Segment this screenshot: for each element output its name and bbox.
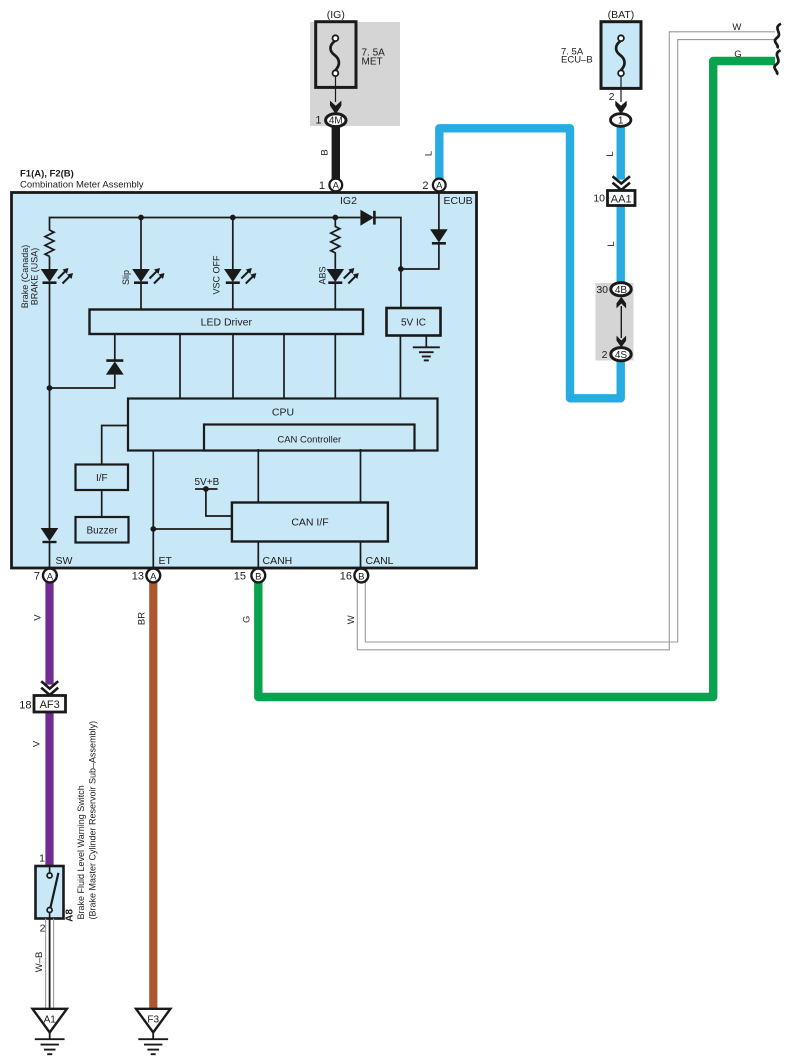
wire W (white, CANL) outer boundary bbox=[357, 32, 775, 650]
svg-text:(IG): (IG) bbox=[327, 9, 345, 21]
wire node to 5V IC bbox=[400, 269, 402, 308]
wire slip LED to LED driver bbox=[140, 284, 142, 311]
svg-text:1: 1 bbox=[618, 116, 624, 127]
pin 13 (A) ET bbox=[132, 555, 173, 583]
wire LED driver to CPU 4 bbox=[334, 334, 336, 399]
wire CAN controller to CAN I/F (CANH) bbox=[257, 449, 259, 503]
svg-text:W: W bbox=[346, 615, 357, 624]
svg-text:CANH: CANH bbox=[263, 555, 293, 567]
svg-text:MET: MET bbox=[362, 57, 383, 68]
svg-text:5V IC: 5V IC bbox=[401, 318, 426, 329]
splice chevrons on purple wire above AF3 bbox=[40, 681, 60, 695]
wire vsc LED to LED driver bbox=[232, 284, 234, 311]
pin 2 (A) ECUB bbox=[422, 179, 472, 207]
svg-text:Brake (Canada): Brake (Canada) bbox=[20, 245, 30, 309]
svg-text:2: 2 bbox=[609, 91, 615, 103]
wire vsc column bbox=[232, 218, 234, 270]
arrow down into 4S bbox=[617, 336, 627, 348]
wire resistor to brake LED bbox=[49, 256, 51, 269]
ground F3 bbox=[136, 1009, 170, 1054]
wire diode D2 to node bbox=[401, 243, 439, 269]
wire CPU to I/F bbox=[102, 426, 128, 465]
svg-text:A: A bbox=[333, 181, 340, 192]
svg-text:2: 2 bbox=[602, 349, 608, 361]
node junction slip bbox=[138, 215, 144, 221]
wire W (white, CANL) inner boundary bbox=[365, 40, 775, 642]
svg-text:2: 2 bbox=[40, 923, 46, 935]
svg-text:A8: A8 bbox=[65, 909, 76, 922]
wire CPU to pin 13 ET bbox=[152, 451, 154, 570]
wire G (green) pin 15 down, right, up, to break bbox=[258, 61, 775, 697]
svg-text:4S: 4S bbox=[615, 350, 628, 361]
arrow up from 4S side bbox=[617, 297, 627, 309]
svg-text:(Brake Master Cylinder Reservo: (Brake Master Cylinder Reservoir Sub–Ass… bbox=[88, 721, 98, 920]
CAN I/F box bbox=[232, 503, 388, 542]
svg-text:13: 13 bbox=[132, 571, 144, 583]
svg-text:F3: F3 bbox=[147, 1015, 159, 1026]
svg-text:(BAT): (BAT) bbox=[608, 9, 635, 21]
LED slip bbox=[132, 268, 164, 284]
svg-text:30: 30 bbox=[596, 284, 608, 296]
4B/4S connector gray background bbox=[596, 283, 634, 361]
5V IC box bbox=[387, 308, 441, 336]
svg-text:V: V bbox=[32, 740, 43, 747]
svg-text:G: G bbox=[734, 49, 741, 60]
svg-text:A1: A1 bbox=[44, 1015, 57, 1026]
svg-text:16: 16 bbox=[340, 571, 352, 583]
svg-text:CAN I/F: CAN I/F bbox=[291, 517, 328, 529]
svg-text:W: W bbox=[732, 22, 741, 33]
diode D4 (down, to SW) bbox=[41, 528, 59, 569]
IG fuse gray background bbox=[310, 22, 400, 126]
svg-text:VSC OFF: VSC OFF bbox=[212, 255, 222, 295]
wire V (purple) pin 7 to splice AF3 bbox=[45, 581, 53, 686]
svg-text:1: 1 bbox=[319, 180, 325, 192]
svg-text:AA1: AA1 bbox=[611, 194, 632, 206]
svg-text:15: 15 bbox=[234, 571, 246, 583]
break symbol W (squiggle) bbox=[775, 24, 781, 49]
fuse ECU-B (BAT) box bbox=[561, 9, 641, 88]
wire brake LED to junction bbox=[49, 284, 51, 389]
svg-text:CANL: CANL bbox=[366, 555, 394, 567]
svg-text:A: A bbox=[436, 181, 443, 192]
svg-text:Slip: Slip bbox=[121, 270, 131, 285]
wire from fuse ECU-B to connector 1 bbox=[620, 76, 622, 102]
connector 4M oval bbox=[315, 114, 346, 127]
5V+B stub bbox=[195, 488, 218, 490]
svg-text:ET: ET bbox=[159, 555, 173, 567]
ground under 5V IC bbox=[413, 336, 440, 361]
wire slip column bbox=[140, 218, 142, 270]
connector AF3 box bbox=[19, 696, 65, 713]
wire ET junction to CAN I/F bbox=[153, 528, 232, 530]
svg-text:2: 2 bbox=[422, 180, 428, 192]
diode D2 (down) bbox=[430, 229, 448, 243]
wire I/F to buzzer bbox=[101, 490, 103, 517]
bus wire from brake column to IG2 bbox=[50, 218, 336, 231]
svg-text:G: G bbox=[242, 616, 253, 623]
LED brake (Canada/USA) bbox=[41, 268, 73, 284]
switch A8 box bbox=[36, 853, 64, 935]
splice chevrons on blue wire above AA1 bbox=[612, 176, 632, 190]
wire abs LED to LED driver bbox=[334, 284, 336, 311]
pin 15 (B) CANH bbox=[234, 555, 293, 583]
svg-text:Brake Fluid Level Warning Swit: Brake Fluid Level Warning Switch bbox=[76, 785, 86, 919]
pin 7 (A) SW bbox=[34, 555, 73, 583]
svg-text:Buzzer: Buzzer bbox=[86, 526, 118, 537]
wire BR (brown) pin 13 to ground F3 bbox=[149, 581, 157, 1009]
svg-text:BRAKE (USA): BRAKE (USA) bbox=[30, 248, 40, 306]
svg-text:18: 18 bbox=[19, 700, 31, 712]
svg-text:CPU: CPU bbox=[272, 407, 294, 419]
node junction vsc bbox=[230, 215, 236, 221]
diode D3 (up, below LED driver) bbox=[50, 334, 124, 388]
wire LED driver to CPU 3 bbox=[283, 334, 285, 399]
fuse MET (IG) box bbox=[316, 9, 385, 87]
wire brake column to diode D4 bbox=[49, 388, 51, 528]
svg-text:SW: SW bbox=[56, 555, 73, 567]
wire CAN controller to CAN I/F (CANL) bbox=[360, 449, 362, 503]
break symbol G (squiggle) bbox=[774, 50, 780, 74]
node junction brake/diode bbox=[47, 385, 53, 391]
wire 5V IC to CPU bbox=[399, 336, 401, 400]
svg-text:L: L bbox=[424, 151, 435, 156]
svg-text:7: 7 bbox=[34, 571, 40, 583]
wire 5V+B to CAN I/F bbox=[206, 489, 232, 516]
svg-text:W–B: W–B bbox=[34, 952, 45, 973]
connector 1 oval bbox=[611, 114, 631, 127]
Buzzer box bbox=[76, 517, 129, 543]
connector 4B oval bbox=[596, 283, 631, 296]
svg-text:L: L bbox=[605, 151, 616, 156]
node junction ig2 bbox=[332, 215, 338, 221]
resistor abs bbox=[331, 218, 340, 269]
svg-text:BR: BR bbox=[136, 612, 147, 625]
svg-text:A: A bbox=[150, 571, 157, 582]
wire V (purple) AF3 to switch A8 bbox=[45, 712, 53, 867]
svg-text:AF3: AF3 bbox=[40, 699, 60, 711]
connector 4S oval bbox=[602, 348, 632, 361]
I/F box bbox=[76, 465, 129, 491]
wire diode D1 to 5V IC column bbox=[374, 218, 401, 270]
svg-text:I/F: I/F bbox=[96, 473, 108, 484]
node junction 5V+B bbox=[203, 486, 209, 492]
wire L (blue) from pin 2 ECUB up, right, down, to 4S bbox=[439, 128, 620, 398]
LED abs bbox=[327, 268, 359, 284]
arrow into connector 4M bbox=[330, 101, 341, 115]
wire from fuse MET to connector 4M bbox=[335, 76, 337, 102]
wire ig2 to diode D1 bbox=[335, 217, 360, 219]
svg-text:10: 10 bbox=[593, 193, 605, 205]
svg-text:F1(A), F2(B): F1(A), F2(B) bbox=[20, 169, 74, 180]
combination meter assembly box bbox=[12, 193, 477, 569]
svg-text:4M: 4M bbox=[329, 116, 343, 127]
wire W-B switch to ground A1 bbox=[46, 919, 54, 1010]
pin 1 (A) IG2 bbox=[319, 179, 357, 207]
svg-text:1: 1 bbox=[315, 115, 321, 127]
svg-text:V: V bbox=[33, 614, 44, 621]
wire pin 2 ECUB down to diode D2 bbox=[438, 191, 440, 230]
svg-text:CAN Controller: CAN Controller bbox=[277, 435, 341, 446]
svg-text:ECUB: ECUB bbox=[444, 195, 473, 207]
wire LED driver to CPU 2 bbox=[232, 334, 234, 399]
pin 16 (B) CANL bbox=[340, 555, 394, 583]
node junction ET bbox=[150, 526, 156, 532]
resistor brake bbox=[45, 230, 54, 256]
ground A1 bbox=[33, 1009, 67, 1054]
line between arrows bbox=[620, 306, 622, 338]
wire CAN I/F to pin 16 CANL bbox=[360, 542, 362, 570]
svg-text:ECU–B: ECU–B bbox=[561, 55, 593, 66]
svg-text:4B: 4B bbox=[615, 285, 628, 296]
svg-text:A: A bbox=[47, 571, 54, 582]
LED vsc off bbox=[224, 268, 256, 284]
connector AA1 box bbox=[593, 191, 635, 206]
svg-text:IG2: IG2 bbox=[340, 195, 357, 207]
CAN Controller box bbox=[204, 425, 415, 451]
CPU box bbox=[128, 399, 438, 451]
wire L (blue) from fuse ECU-B through AA1 to 4B bbox=[617, 125, 625, 284]
wire B (thick black) from fuse MET to pin 1 bbox=[332, 125, 340, 180]
svg-text:1: 1 bbox=[39, 853, 45, 865]
svg-text:B: B bbox=[255, 571, 261, 582]
node junction 5V bbox=[398, 266, 404, 272]
diode D1 (right) bbox=[360, 210, 374, 226]
svg-text:Combination Meter Assembly: Combination Meter Assembly bbox=[20, 180, 144, 191]
arrow into connector 1 bbox=[615, 101, 626, 115]
svg-text:B: B bbox=[358, 571, 364, 582]
svg-text:B: B bbox=[320, 149, 331, 155]
wire LED driver to CPU 1 bbox=[179, 334, 181, 399]
LED Driver box bbox=[90, 310, 364, 335]
wire CAN I/F to pin 15 CANH bbox=[257, 542, 259, 570]
svg-text:LED Driver: LED Driver bbox=[201, 317, 253, 329]
svg-text:ABS: ABS bbox=[318, 266, 328, 284]
svg-text:L: L bbox=[606, 241, 617, 246]
